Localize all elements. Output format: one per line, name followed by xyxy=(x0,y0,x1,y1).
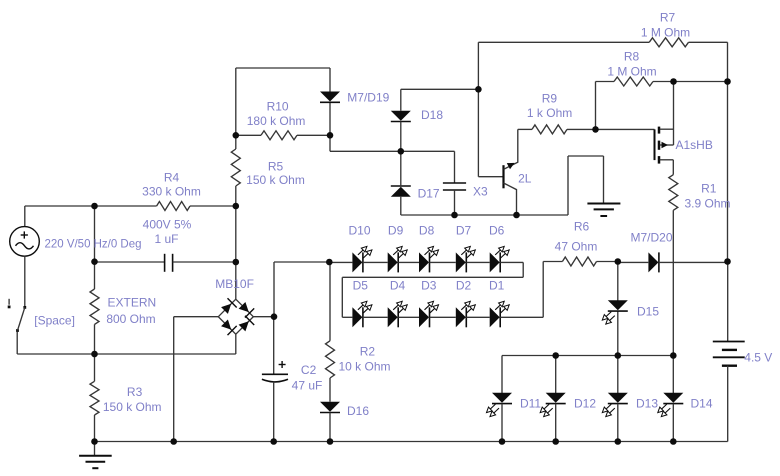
svg-text:D7: D7 xyxy=(456,224,472,238)
svg-text:180 k Ohm: 180 k Ohm xyxy=(247,114,306,128)
svg-text:C2: C2 xyxy=(301,363,317,377)
svg-text:D5: D5 xyxy=(353,279,369,293)
svg-text:1 k Ohm: 1 k Ohm xyxy=(527,106,572,120)
svg-text:A1sHB: A1sHB xyxy=(676,138,713,152)
svg-text:D2: D2 xyxy=(456,279,472,293)
svg-text:2L: 2L xyxy=(518,172,532,186)
svg-text:R5: R5 xyxy=(268,160,284,174)
svg-text:3.9 Ohm: 3.9 Ohm xyxy=(684,197,730,211)
svg-text:D12: D12 xyxy=(574,397,596,411)
svg-text:M7/D19: M7/D19 xyxy=(347,91,389,105)
svg-text:800 Ohm: 800 Ohm xyxy=(106,312,155,326)
svg-text:D8: D8 xyxy=(419,224,435,238)
svg-text:D15: D15 xyxy=(637,305,659,319)
svg-text:R4: R4 xyxy=(164,171,180,185)
svg-text:150 k Ohm: 150 k Ohm xyxy=(246,173,305,187)
svg-text:47 Ohm: 47 Ohm xyxy=(555,240,598,254)
svg-text:X3: X3 xyxy=(473,185,488,199)
svg-text:R10: R10 xyxy=(267,100,289,114)
svg-text:MB10F: MB10F xyxy=(215,277,254,291)
svg-text:4.5 V: 4.5 V xyxy=(744,351,772,365)
svg-text:1 M Ohm: 1 M Ohm xyxy=(607,65,656,79)
svg-text:1 uF: 1 uF xyxy=(154,232,178,246)
svg-text:R7: R7 xyxy=(660,11,676,25)
svg-text:D17: D17 xyxy=(418,187,440,201)
svg-text:10 k Ohm: 10 k Ohm xyxy=(338,360,390,374)
svg-text:D9: D9 xyxy=(388,224,404,238)
svg-text:R1: R1 xyxy=(701,182,717,196)
svg-text:M7/D20: M7/D20 xyxy=(630,231,672,245)
svg-text:D11: D11 xyxy=(520,397,541,411)
svg-text:D3: D3 xyxy=(421,279,437,293)
svg-text:D1: D1 xyxy=(489,279,505,293)
svg-text:400V 5%: 400V 5% xyxy=(143,218,192,232)
svg-text:330 k Ohm: 330 k Ohm xyxy=(142,185,201,199)
svg-text:220 V/50 Hz/0 Deg: 220 V/50 Hz/0 Deg xyxy=(45,237,142,251)
svg-text:D10: D10 xyxy=(348,224,370,238)
svg-text:R6: R6 xyxy=(574,220,590,234)
svg-text:R2: R2 xyxy=(360,345,376,359)
svg-text:EXTERN: EXTERN xyxy=(108,296,157,310)
svg-text:R8: R8 xyxy=(624,50,640,64)
svg-text:1 M Ohm: 1 M Ohm xyxy=(641,26,690,40)
svg-text:D16: D16 xyxy=(347,404,369,418)
svg-text:150 k Ohm: 150 k Ohm xyxy=(103,400,162,414)
svg-text:D4: D4 xyxy=(390,279,406,293)
svg-text:[Space]: [Space] xyxy=(34,314,75,328)
svg-text:D6: D6 xyxy=(489,224,505,238)
svg-text:47 uF: 47 uF xyxy=(292,379,323,393)
svg-text:R9: R9 xyxy=(542,92,558,106)
svg-text:D14: D14 xyxy=(690,397,712,411)
svg-text:D13: D13 xyxy=(636,397,658,411)
svg-text:D18: D18 xyxy=(421,108,443,122)
svg-text:R3: R3 xyxy=(127,385,143,399)
